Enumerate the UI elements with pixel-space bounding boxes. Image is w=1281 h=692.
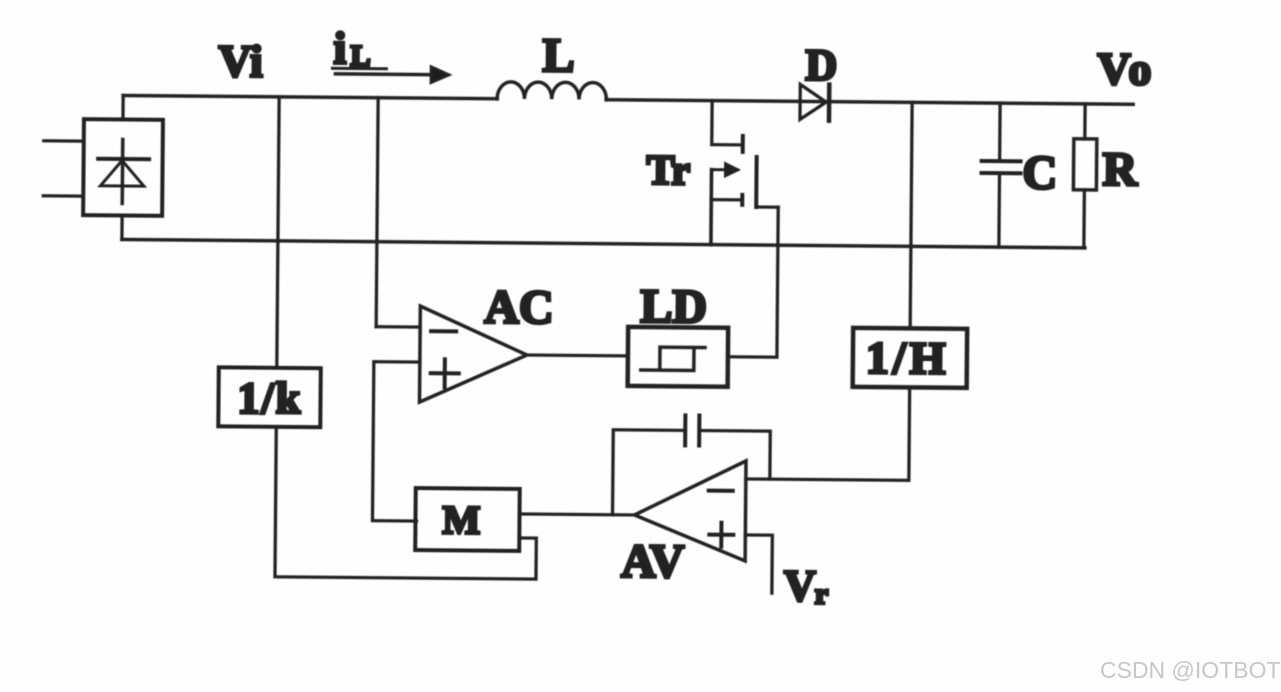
bottom rail	[122, 239, 1085, 247]
wire ac input stub bottom	[43, 194, 83, 198]
svg-text:i: i	[333, 22, 346, 73]
svg-text:1/k: 1/k	[237, 373, 302, 423]
label iL	[332, 22, 386, 73]
capacitor C	[981, 103, 1021, 247]
arrow iL	[335, 66, 448, 82]
wire ac input stub top	[44, 139, 84, 143]
top rail	[123, 95, 1133, 104]
op-amp AV	[634, 460, 746, 561]
capacitor feedback	[685, 415, 699, 445]
bridge rectifier	[83, 119, 163, 216]
wire Vo sense vertical	[910, 102, 912, 328]
wire rectifier top to rail	[121, 95, 125, 119]
wire rectifier bottom to rail	[120, 215, 124, 239]
wire feedback loop	[613, 430, 771, 516]
block LD	[628, 327, 729, 387]
wire 1/H to AV minus	[746, 386, 910, 480]
wire Vi sense vertical	[277, 97, 279, 368]
wire M to AV output	[520, 514, 635, 515]
svg-text:R: R	[1102, 143, 1138, 196]
wire 1/k to M	[275, 427, 537, 579]
wire Tr gate to LD	[728, 207, 778, 357]
diode D	[800, 84, 829, 120]
svg-text:Vo: Vo	[1097, 43, 1153, 94]
wire AC minus input	[376, 325, 420, 329]
svg-text:C: C	[1022, 146, 1057, 199]
label Vr	[784, 561, 829, 610]
svg-text:L: L	[542, 29, 574, 82]
transistor Q Tr	[711, 101, 779, 246]
svg-text:V: V	[784, 561, 816, 610]
svg-text:AV: AV	[621, 535, 685, 589]
svg-text:D: D	[805, 40, 837, 89]
svg-text:M: M	[442, 497, 480, 542]
svg-text:1/H: 1/H	[866, 332, 950, 384]
op-amp AC	[420, 306, 528, 403]
inductor L	[497, 82, 606, 100]
svg-text:LD: LD	[640, 280, 707, 334]
wire iL sense vertical	[376, 98, 378, 327]
svg-text:AC: AC	[484, 281, 554, 335]
wire AV plus to Vr	[745, 535, 773, 593]
wire AC plus input to M	[372, 362, 419, 521]
svg-text:r: r	[815, 578, 829, 611]
resistor R	[1073, 104, 1097, 248]
block 1/H	[853, 328, 968, 388]
svg-text:CSDN @IOTBOT: CSDN @IOTBOT	[1100, 657, 1281, 683]
svg-text:Tr: Tr	[646, 148, 690, 194]
block M	[415, 488, 520, 551]
block 1/k	[218, 367, 321, 427]
svg-text:Vi: Vi	[218, 35, 263, 86]
wire AC output to LD	[527, 353, 628, 357]
